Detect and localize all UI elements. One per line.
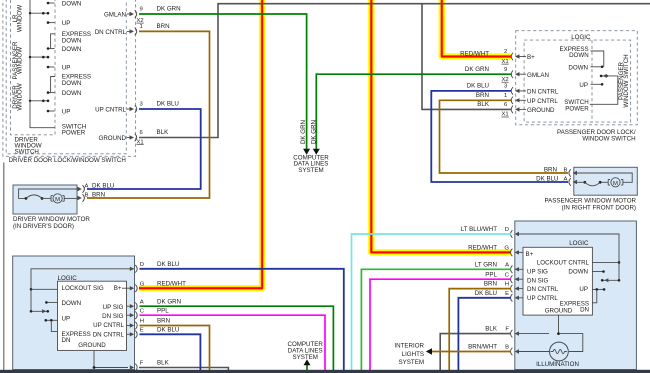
svg-text:INTERIOR: INTERIOR xyxy=(394,343,424,350)
svg-text:A: A xyxy=(505,262,509,268)
svg-text:GROUND: GROUND xyxy=(527,107,555,114)
passenger door lock/window switch outer box xyxy=(516,31,638,125)
driver module logic box xyxy=(58,275,127,350)
wire RED/WHT traced to passenger switch B+ xyxy=(442,0,511,57)
pin 3 connector xyxy=(127,102,144,113)
svg-text:F: F xyxy=(505,327,509,333)
svg-text:DOWN: DOWN xyxy=(62,38,82,45)
driver module wiper xyxy=(30,309,49,313)
svg-text:DOWN: DOWN xyxy=(568,64,588,71)
svg-text:DN SIG: DN SIG xyxy=(527,278,549,285)
label PASSENGER WINDOW xyxy=(12,41,24,80)
wire BLK passenger switch ground xyxy=(422,4,511,110)
wire BRN/WHT interior lights xyxy=(431,351,511,353)
svg-text:9: 9 xyxy=(504,67,507,73)
driver window switch sub-label xyxy=(15,136,42,155)
passenger module down contact xyxy=(592,270,604,273)
svg-text:GROUND: GROUND xyxy=(545,307,573,314)
passenger module wiper xyxy=(601,278,620,282)
driver window motor box xyxy=(13,185,77,214)
driver module pin F connector xyxy=(130,361,144,372)
svg-text:BLK: BLK xyxy=(485,326,498,333)
passenger module express bracket xyxy=(592,290,596,303)
svg-text:X2: X2 xyxy=(502,77,509,83)
driver motor label xyxy=(13,216,90,230)
svg-text:GROUND: GROUND xyxy=(99,135,127,142)
svg-text:SYSTEM: SYSTEM xyxy=(399,359,424,366)
svg-text:9: 9 xyxy=(140,7,143,13)
svg-text:2: 2 xyxy=(504,49,507,55)
svg-text:UP SIG: UP SIG xyxy=(103,304,124,311)
svg-text:1: 1 xyxy=(140,24,143,30)
passenger module wire labels xyxy=(461,226,498,351)
svg-text:DN SIG: DN SIG xyxy=(102,313,124,320)
page frame bottom bar xyxy=(0,370,650,373)
passenger window motor internal circuit xyxy=(574,173,632,187)
wire label DK GRN (driver pin 9) xyxy=(157,6,181,13)
illumination lamp xyxy=(516,334,583,361)
svg-text:DOWN: DOWN xyxy=(569,52,589,59)
svg-text:POWER: POWER xyxy=(62,130,86,137)
page frame left border xyxy=(3,163,5,371)
svg-text:UP: UP xyxy=(62,20,71,27)
wire LT BLU/WHT passenger module D xyxy=(352,234,512,370)
driver module down contact xyxy=(45,301,57,304)
label computer data lines system bottom xyxy=(287,341,323,361)
passenger switch wiper xyxy=(600,74,618,78)
svg-text:B+: B+ xyxy=(527,54,535,61)
passenger pin 6 connector xyxy=(502,102,527,118)
svg-text:D: D xyxy=(140,262,144,268)
wire BLK driver module ground xyxy=(139,368,228,371)
svg-text:LOCKOUT SIG: LOCKOUT SIG xyxy=(62,285,104,292)
svg-text:SYSTEM: SYSTEM xyxy=(298,167,323,174)
svg-text:LOGIC: LOGIC xyxy=(569,240,589,247)
wire DK GRN passenger GMLAN to data link xyxy=(316,74,511,149)
driver module pin A connector xyxy=(127,299,144,310)
svg-text:DOWN: DOWN xyxy=(62,300,82,307)
wire PPL passenger module C xyxy=(370,279,511,370)
svg-text:X1: X1 xyxy=(502,112,509,118)
svg-text:LT GRN: LT GRN xyxy=(475,261,497,268)
svg-text:UP: UP xyxy=(579,82,588,89)
svg-text:BRN: BRN xyxy=(476,92,489,99)
wire label DK BLU (passenger motor A) xyxy=(536,176,558,183)
wire label DK BLU (driver motor A) xyxy=(92,182,114,189)
driver module logic labels xyxy=(62,285,125,349)
svg-text:B+: B+ xyxy=(114,285,122,292)
passenger module logic box xyxy=(523,240,592,315)
wire DK GRN driver GMLAN to data link xyxy=(139,14,307,149)
passenger module pin F connector xyxy=(505,327,519,338)
svg-text:ILLUMINATION: ILLUMINATION xyxy=(536,361,579,368)
svg-text:DRIVERWINDOW: DRIVERWINDOW xyxy=(12,83,24,110)
svg-text:(IN DRIVER'S DOOR): (IN DRIVER'S DOOR) xyxy=(13,223,74,230)
wire label DK GRN (passenger GMLAN) xyxy=(465,66,489,73)
svg-text:1: 1 xyxy=(504,93,507,99)
wire PPL driver module C xyxy=(140,315,326,370)
svg-text:GROUND: GROUND xyxy=(78,342,106,349)
wire DK BLU passenger module E xyxy=(458,298,511,370)
svg-text:C: C xyxy=(140,308,145,314)
svg-text:UP: UP xyxy=(62,315,71,322)
passenger master switch module box (bottom right) xyxy=(515,221,637,370)
wire DK BLU driver UP CNTRL to motor A xyxy=(87,109,201,189)
passenger pin 2 connector xyxy=(502,49,527,65)
driver switch contact labels xyxy=(62,1,91,137)
svg-text:BRN/WHT: BRN/WHT xyxy=(468,344,497,351)
passenger module pin C connector xyxy=(505,272,523,283)
svg-text:X1: X1 xyxy=(137,139,144,145)
svg-text:D: D xyxy=(505,227,509,233)
svg-text:DN CNTRL: DN CNTRL xyxy=(527,286,559,293)
passenger switch express down contact xyxy=(559,46,603,67)
svg-text:(IN RIGHT FRONT DOOR): (IN RIGHT FRONT DOOR) xyxy=(562,204,636,211)
svg-text:RED/WHT: RED/WHT xyxy=(468,245,497,252)
passenger module ground line xyxy=(557,315,560,335)
svg-text:UP: UP xyxy=(579,286,588,293)
svg-text:DK GRN: DK GRN xyxy=(157,6,181,13)
passenger switch down contact xyxy=(568,64,603,71)
svg-text:BLK: BLK xyxy=(157,360,170,367)
svg-text:BLK: BLK xyxy=(477,101,490,108)
driver switch common line xyxy=(30,0,55,128)
svg-text:UP: UP xyxy=(62,65,71,72)
wire BRN driver module H xyxy=(140,326,210,371)
passenger pin 3 connector xyxy=(504,84,526,95)
passenger switch pin name labels xyxy=(527,54,559,114)
svg-text:BRN: BRN xyxy=(157,318,170,325)
svg-text:G: G xyxy=(504,246,509,252)
driver door box label xyxy=(9,157,126,164)
passenger module pin H connector xyxy=(505,282,523,293)
wire DK GRN driver module A xyxy=(140,306,334,370)
svg-text:E: E xyxy=(505,291,509,297)
driver motor pin B connector xyxy=(78,192,89,202)
svg-text:GMLAN: GMLAN xyxy=(104,12,126,19)
passenger switch up contact xyxy=(579,82,603,89)
pin 9 connector xyxy=(127,7,144,24)
label DRIVER WINDOW xyxy=(12,83,24,110)
svg-text:UP: UP xyxy=(62,109,71,116)
svg-text:BLK: BLK xyxy=(157,129,170,136)
wire label BRN (passenger motor B) xyxy=(544,167,557,174)
label computer data lines system top xyxy=(293,154,329,174)
svg-text:C: C xyxy=(505,272,510,278)
svg-text:DN CNTRL: DN CNTRL xyxy=(95,29,127,36)
wire DK BLU passenger DN CNTRL to motor A xyxy=(431,91,568,182)
passenger module logic labels xyxy=(526,251,590,314)
svg-text:GMLAN: GMLAN xyxy=(527,72,549,79)
svg-text:SWITCH: SWITCH xyxy=(15,148,39,155)
svg-text:PASSENGERWINDOW SWITCH: PASSENGERWINDOW SWITCH xyxy=(618,54,630,107)
label interior lights system xyxy=(394,343,424,366)
svg-text:DK GRN: DK GRN xyxy=(300,120,307,144)
svg-text:DK BLU: DK BLU xyxy=(157,101,179,108)
svg-text:LOGIC: LOGIC xyxy=(58,275,78,282)
svg-text:DN: DN xyxy=(580,307,589,314)
svg-text:DN CNTRL: DN CNTRL xyxy=(527,89,559,96)
driver module pin D connector xyxy=(130,262,144,273)
svg-text:BRN: BRN xyxy=(157,23,170,30)
passenger module pin A connector xyxy=(505,262,523,273)
wire label BRN (driver pin 1) xyxy=(157,23,170,30)
svg-text:RED/WHT: RED/WHT xyxy=(460,50,489,57)
passenger motor pin A connector xyxy=(564,177,578,186)
passenger module pin G connector xyxy=(504,246,523,257)
passenger module up contact xyxy=(592,288,605,291)
passenger module pin B connector xyxy=(505,345,549,356)
arrow computer data lines (right) xyxy=(313,149,320,155)
wire DK BLU driver module D xyxy=(140,269,344,370)
svg-text:PPL: PPL xyxy=(485,271,497,278)
wire BRN passenger UP CNTRL to motor B xyxy=(440,100,569,173)
svg-text:F: F xyxy=(140,361,144,367)
wire label BLK (driver pin 6) xyxy=(157,129,170,136)
svg-text:A: A xyxy=(140,299,144,305)
wire LT GRN passenger module A xyxy=(361,269,511,370)
svg-text:RED/WHT: RED/WHT xyxy=(157,280,186,287)
svg-text:DK BLU: DK BLU xyxy=(475,290,497,297)
wire label RED/WHT (passenger B+) xyxy=(460,50,489,57)
svg-text:UP CNTRL: UP CNTRL xyxy=(527,295,558,302)
driver module pin G connector xyxy=(122,281,145,292)
svg-text:X1: X1 xyxy=(502,59,509,65)
svg-text:DOWN: DOWN xyxy=(62,1,82,8)
svg-text:B: B xyxy=(505,345,509,351)
wire BLK ground bus top xyxy=(139,4,650,138)
passenger pin 9 connector xyxy=(502,67,527,83)
svg-text:DOWN: DOWN xyxy=(568,269,588,276)
driver module ground line xyxy=(93,350,128,369)
LR window switch contacts xyxy=(29,2,55,24)
svg-text:SYSTEM: SYSTEM xyxy=(292,354,317,361)
wire BRN passenger module H xyxy=(449,289,511,370)
passenger module pin D connector xyxy=(505,227,519,238)
svg-text:DK BLU: DK BLU xyxy=(157,326,179,333)
wire label BRN (driver motor B) xyxy=(92,191,105,198)
wire DK GRN data lines stub bottom xyxy=(306,365,308,370)
wire RED/WHT traced vertical to passenger module B+ xyxy=(371,0,511,252)
pin 1 connector xyxy=(127,24,143,35)
svg-text:DN CNTRL: DN CNTRL xyxy=(93,331,125,338)
driver module lockout line xyxy=(30,269,134,312)
driver switch pin labels xyxy=(95,12,127,143)
label LOGIC (passenger switch) xyxy=(571,34,591,41)
svg-text:LIGHTS: LIGHTS xyxy=(402,351,424,358)
driver window switch contacts xyxy=(29,77,55,113)
svg-text:UP SIG: UP SIG xyxy=(527,269,548,276)
driver module pin H connector xyxy=(127,319,144,330)
passenger box label xyxy=(557,129,636,143)
passenger motor label xyxy=(544,197,636,211)
svg-text:LOGIC: LOGIC xyxy=(571,34,591,41)
svg-text:UP CNTRL: UP CNTRL xyxy=(95,107,126,114)
svg-text:DK GRN: DK GRN xyxy=(157,298,181,305)
wire label BLK (passenger GROUND) xyxy=(477,101,490,108)
svg-text:LOCKOUT CNTRL: LOCKOUT CNTRL xyxy=(537,260,590,267)
driver motor pin A connector xyxy=(78,183,89,193)
svg-text:X2: X2 xyxy=(137,18,144,24)
passenger window motor box xyxy=(574,167,638,195)
svg-text:DOWN: DOWN xyxy=(62,46,82,53)
driver door lock/window switch outer box xyxy=(3,0,136,156)
svg-text:DN: DN xyxy=(62,337,71,344)
driver module wire labels xyxy=(157,261,186,367)
svg-text:UP CNTRL: UP CNTRL xyxy=(93,322,124,329)
svg-text:PPL: PPL xyxy=(157,307,169,314)
svg-text:BRN: BRN xyxy=(484,281,497,288)
svg-text:M: M xyxy=(613,181,618,187)
passenger switch power line xyxy=(564,76,618,112)
passenger module lockout line xyxy=(516,234,620,280)
svg-text:H: H xyxy=(505,282,509,288)
arrow computer data lines bottom xyxy=(304,359,311,365)
svg-text:DRIVER DOOR LOCK/WINDOW SWITCH: DRIVER DOOR LOCK/WINDOW SWITCH xyxy=(9,157,126,164)
svg-text:UP CNTRL: UP CNTRL xyxy=(527,98,558,105)
svg-text:B+: B+ xyxy=(526,251,534,258)
driver master switch module box (bottom left) xyxy=(13,256,135,370)
svg-text:DK GRN: DK GRN xyxy=(311,120,318,144)
driver window motor internal circuit xyxy=(19,189,77,203)
driver module pin E connector xyxy=(127,327,144,338)
svg-text:DRIVER WINDOW MOTOR: DRIVER WINDOW MOTOR xyxy=(13,216,90,223)
passenger pin 1 connector xyxy=(504,93,526,104)
label LR WINDOW xyxy=(12,5,24,32)
svg-text:DK GRN: DK GRN xyxy=(465,66,489,73)
wire DK BLU driver module E xyxy=(140,334,201,370)
arrow computer data lines (left) xyxy=(303,149,310,155)
wire label DK BLU (driver pin 3) xyxy=(157,101,179,108)
passenger motor pin B connector xyxy=(564,168,578,177)
svg-text:DOWN: DOWN xyxy=(62,90,82,97)
wire BLK passenger module ground xyxy=(440,334,511,370)
rotated wire label DK GRN left xyxy=(300,120,307,144)
passenger module pin E connector xyxy=(505,291,523,302)
svg-text:PASSENGER WINDOW MOTOR: PASSENGER WINDOW MOTOR xyxy=(544,197,636,204)
svg-text:G: G xyxy=(140,281,145,287)
pin 6 connector xyxy=(127,130,144,145)
svg-text:DK BLU: DK BLU xyxy=(467,83,489,90)
driver module up contact xyxy=(45,319,58,322)
svg-text:E: E xyxy=(140,327,144,333)
wire RED/WHT traced vertical to driver module B+ xyxy=(139,0,262,288)
rotated wire label DK GRN right xyxy=(311,120,318,144)
wire label DK BLU (passenger DN CNTRL) xyxy=(467,83,489,90)
svg-text:DOWN: DOWN xyxy=(62,80,82,87)
svg-text:H: H xyxy=(140,319,144,325)
wire BRN driver DN CNTRL to motor B xyxy=(87,31,210,198)
label PASSENGER WINDOW SWITCH rotated xyxy=(618,54,630,107)
svg-text:M: M xyxy=(55,197,60,203)
wire label BRN (passenger UP CNTRL) xyxy=(476,92,489,99)
svg-text:POWER: POWER xyxy=(565,105,589,112)
illumination label xyxy=(536,361,579,368)
svg-text:WINDOW SWITCH: WINDOW SWITCH xyxy=(582,136,635,143)
driver module express bracket xyxy=(51,321,57,332)
driver module pin C connector xyxy=(127,308,145,319)
svg-text:DK BLU: DK BLU xyxy=(157,261,179,268)
passenger window switch contacts xyxy=(29,34,55,68)
arrow interior lights system xyxy=(426,348,432,354)
svg-text:LT BLU/WHT: LT BLU/WHT xyxy=(461,226,497,233)
